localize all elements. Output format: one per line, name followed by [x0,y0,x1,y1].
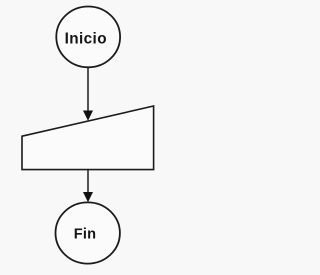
terminator circle Inicio [56,7,120,68]
flowline from Inicio to manual-input [87,68,89,113]
label Inicio [65,31,107,48]
arrowhead into manual-input [83,111,93,121]
svg-text:Fin: Fin [74,227,96,243]
flowline from manual-input to Fin [87,170,89,194]
terminator circle Fin [55,202,119,263]
label Fin [74,227,96,243]
svg-text:Inicio: Inicio [65,31,107,48]
arrowhead into Fin [83,192,93,202]
manual-input shape [22,106,154,170]
